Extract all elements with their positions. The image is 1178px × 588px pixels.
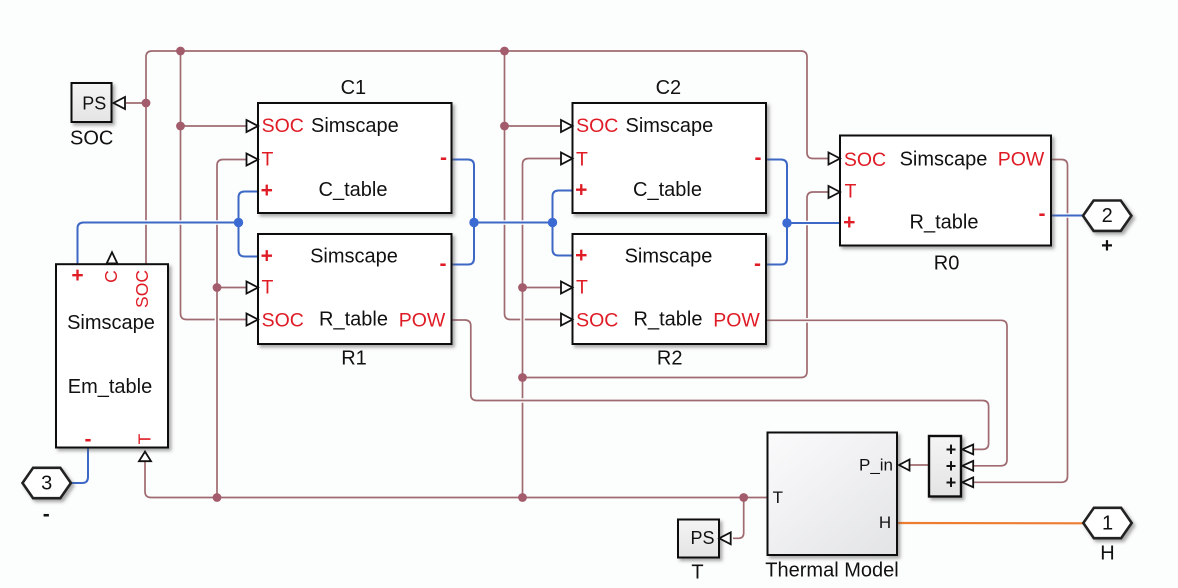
svg-text:2: 2 (1102, 205, 1113, 227)
svg-text:R_table: R_table (319, 309, 388, 331)
svg-text:T: T (845, 181, 857, 203)
svg-text:+: + (575, 244, 587, 267)
svg-text:R_table: R_table (634, 309, 703, 331)
svg-text:+: + (575, 179, 587, 202)
svg-text:PS: PS (82, 93, 106, 113)
svg-text:SOC: SOC (576, 310, 618, 332)
svg-text:R1: R1 (341, 348, 367, 370)
svg-text:-: - (43, 503, 50, 526)
svg-text:+: + (261, 179, 273, 202)
svg-text:SOC: SOC (844, 149, 886, 171)
svg-text:C1: C1 (341, 77, 367, 99)
svg-text:T: T (773, 488, 783, 507)
svg-text:-: - (755, 147, 762, 170)
svg-text:P_in: P_in (859, 455, 893, 474)
svg-text:R0: R0 (934, 253, 960, 275)
svg-text:-: - (1039, 203, 1046, 226)
svg-text:T: T (576, 277, 588, 299)
svg-text:T: T (691, 562, 703, 584)
svg-text:POW: POW (998, 149, 1045, 171)
svg-text:+: + (1101, 235, 1113, 257)
svg-text:1: 1 (1102, 513, 1113, 535)
svg-text:-: - (754, 253, 761, 276)
svg-text:SOC: SOC (262, 310, 304, 332)
svg-text:T: T (262, 277, 274, 299)
svg-text:H: H (1100, 543, 1114, 565)
svg-text:C: C (101, 270, 121, 283)
svg-text:SOC: SOC (132, 270, 152, 308)
svg-text:T: T (135, 433, 155, 444)
svg-text:-: - (440, 253, 447, 276)
svg-text:Em_table: Em_table (68, 376, 153, 398)
svg-text:Simscape: Simscape (310, 246, 398, 268)
svg-text:Simscape: Simscape (625, 246, 713, 268)
svg-text:Simscape: Simscape (625, 115, 713, 137)
svg-text:-: - (440, 147, 447, 170)
svg-text:C2: C2 (656, 77, 682, 99)
svg-text:POW: POW (713, 310, 760, 332)
svg-text:C_table: C_table (633, 179, 702, 201)
svg-text:+: + (843, 211, 855, 234)
svg-text:Thermal Model: Thermal Model (765, 560, 898, 582)
svg-text:H: H (879, 513, 891, 532)
svg-text:POW: POW (399, 310, 446, 332)
svg-text:Simscape: Simscape (67, 312, 155, 334)
svg-text:Simscape: Simscape (900, 149, 988, 171)
svg-text:C_table: C_table (319, 179, 388, 201)
svg-text:PS: PS (690, 528, 714, 548)
svg-text:T: T (262, 149, 274, 171)
svg-text:+: + (261, 245, 273, 268)
svg-text:-: - (85, 428, 92, 451)
svg-text:R_table: R_table (910, 212, 979, 234)
svg-text:3: 3 (41, 473, 52, 495)
svg-text:SOC: SOC (576, 115, 618, 137)
svg-text:+: + (71, 264, 83, 287)
svg-text:+: + (946, 472, 957, 492)
svg-text:T: T (576, 149, 588, 171)
svg-text:Simscape: Simscape (311, 115, 399, 137)
svg-text:SOC: SOC (70, 127, 113, 149)
svg-text:SOC: SOC (262, 115, 304, 137)
svg-text:R2: R2 (657, 348, 683, 370)
